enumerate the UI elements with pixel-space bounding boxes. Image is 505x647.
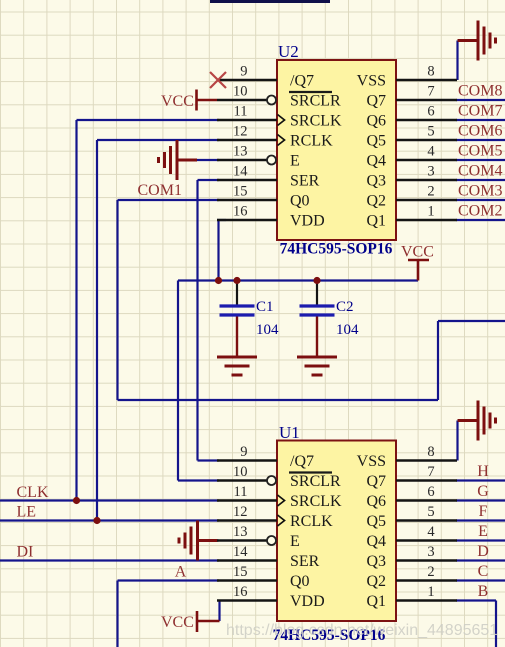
power VCC at U1 pin16	[197, 611, 220, 632]
svg-text:SER: SER	[290, 553, 320, 570]
wire U2 pin15 vertical	[116, 200, 118, 400]
wire vertical x438	[437, 321, 439, 400]
pin 10 U1	[217, 479, 267, 481]
svg-text:SRCLK: SRCLK	[290, 113, 342, 130]
svg-text:14: 14	[233, 164, 248, 180]
svg-text:COM1: COM1	[138, 182, 182, 199]
junction LE	[93, 517, 100, 524]
wire net COM5	[456, 159, 505, 161]
svg-text:SRCLR: SRCLR	[290, 93, 341, 110]
pin 1 U2	[396, 219, 457, 221]
svg-text:13: 13	[233, 144, 248, 160]
pin 6 U2	[396, 119, 457, 121]
pin 9 U2	[217, 79, 277, 81]
overline SRCLR U2	[289, 91, 332, 93]
junction rail x218	[215, 277, 222, 284]
svg-text:B: B	[478, 583, 489, 600]
svg-text:SER: SER	[290, 173, 320, 190]
wire U2 pin13 stub	[196, 159, 219, 161]
svg-text:8: 8	[427, 64, 434, 80]
svg-text:RCLK: RCLK	[290, 133, 333, 150]
wire net F	[456, 519, 505, 521]
wire U2 pin8 vertical to ground	[456, 41, 458, 81]
svg-text:15: 15	[233, 184, 248, 200]
ground earth C2	[297, 357, 337, 375]
svg-text:8: 8	[427, 444, 434, 460]
pin 13 U1	[217, 539, 267, 541]
junction CLK	[73, 497, 80, 504]
svg-text:10: 10	[233, 464, 248, 480]
pin 4 U2	[396, 159, 457, 161]
capacitor C2 bottom stub	[316, 317, 318, 357]
power ground at U2 pin13	[159, 140, 198, 180]
svg-text:VCC: VCC	[401, 244, 434, 261]
svg-text:https://blog.csdn.net/weixin_4: https://blog.csdn.net/weixin_44895651	[226, 622, 498, 639]
svg-text:3: 3	[427, 164, 434, 180]
svg-text:9: 9	[240, 64, 247, 80]
capacitor C1 top stub	[236, 281, 238, 305]
pin names U1 right	[357, 453, 386, 610]
ground earth C1	[217, 357, 257, 375]
wire net E	[456, 539, 505, 541]
clock symbol U2 pin12	[278, 135, 285, 146]
svg-text:U2: U2	[278, 42, 299, 61]
svg-text:9: 9	[240, 444, 247, 460]
wire net COM7	[456, 119, 505, 121]
wire VCC rail	[178, 279, 418, 281]
pin 15 U1	[217, 579, 277, 581]
svg-text:COM2: COM2	[458, 203, 502, 220]
pin 12 U2	[217, 139, 277, 141]
svg-text:C1: C1	[256, 299, 274, 315]
wire net COM6	[456, 139, 505, 141]
svg-text:SRCLR: SRCLR	[290, 473, 341, 490]
power ground at U1 pin13	[179, 521, 218, 561]
pin numbers U1 right	[427, 444, 435, 600]
svg-text:D: D	[477, 543, 489, 560]
svg-text:F: F	[479, 503, 488, 520]
inversion bubble U2 pin13	[267, 156, 276, 165]
svg-text:VCC: VCC	[161, 614, 194, 631]
pin 11 U1	[217, 499, 277, 501]
wire net COM2	[456, 219, 505, 221]
wire horizontal y400	[118, 399, 439, 401]
wire net B horizontal	[456, 599, 496, 601]
wire net CLK	[0, 499, 219, 501]
svg-text:VSS: VSS	[357, 453, 386, 470]
svg-text:RCLK: RCLK	[290, 513, 333, 530]
svg-text:DI: DI	[17, 544, 34, 561]
pin numbers U1 left	[233, 444, 248, 600]
svg-text:Q2: Q2	[366, 573, 386, 590]
svg-text:U1: U1	[279, 423, 300, 442]
power VCC mid rail	[408, 260, 429, 281]
svg-text:6: 6	[427, 484, 434, 500]
svg-text:16: 16	[233, 584, 248, 600]
svg-text:7: 7	[427, 464, 434, 480]
IC U2 body	[277, 60, 396, 240]
svg-text:COM3: COM3	[458, 183, 502, 200]
capacitor C1 plates	[220, 306, 255, 315]
pin 14 U1	[217, 559, 277, 561]
pin 8 U2	[396, 79, 457, 81]
svg-text:4: 4	[427, 144, 435, 160]
capacitor C2 top stub	[316, 281, 318, 305]
pin 16 U2	[217, 219, 277, 221]
svg-text:Q4: Q4	[366, 533, 386, 550]
svg-text:Q6: Q6	[366, 113, 386, 130]
pin 5 U2	[396, 139, 457, 141]
wire net COM3	[456, 199, 505, 201]
pin 13 U2	[217, 159, 267, 161]
svg-text:Q6: Q6	[366, 493, 386, 510]
wire horizontal y321 to right edge	[438, 320, 505, 322]
capacitor C1 bottom stub	[236, 317, 238, 357]
svg-text:1: 1	[427, 584, 434, 600]
wire U2 pin16 stub	[217, 219, 226, 221]
wire U1 pin15 vertical to bottom edge	[116, 581, 118, 647]
wire top edge	[210, 0, 330, 3]
clock symbol U2 pin11	[278, 115, 285, 126]
inversion bubble U1 pin10	[267, 476, 276, 485]
svg-text:VDD: VDD	[290, 213, 325, 230]
svg-text:5: 5	[427, 124, 434, 140]
svg-text:11: 11	[234, 484, 248, 500]
wire U2 pin15 horizontal net COM1	[118, 199, 220, 201]
svg-text:16: 16	[233, 204, 248, 220]
wire U1 pin10 horizontal	[178, 479, 219, 481]
svg-text:SRCLK: SRCLK	[290, 493, 342, 510]
svg-text:COM6: COM6	[458, 123, 502, 140]
svg-text:104: 104	[256, 322, 279, 338]
pin 2 U2	[396, 199, 457, 201]
svg-text:Q0: Q0	[290, 573, 310, 590]
svg-text:E: E	[290, 153, 300, 170]
pin 4 U1	[396, 539, 457, 541]
pin 10 U2	[217, 99, 267, 101]
svg-text:COM4: COM4	[458, 163, 502, 180]
wire U2 pin16 vertical to rail	[217, 220, 219, 281]
pin names U2 left	[290, 73, 342, 230]
pin 15 U2	[217, 199, 277, 201]
svg-text:14: 14	[233, 544, 248, 560]
wire U2 pin14 horizontal	[198, 179, 220, 181]
svg-text:VCC: VCC	[161, 93, 194, 110]
wire net D	[456, 559, 505, 561]
svg-text:Q4: Q4	[366, 153, 386, 170]
svg-text:G: G	[477, 483, 489, 500]
svg-text:Q2: Q2	[366, 193, 386, 210]
pin 9 U1	[217, 459, 277, 461]
wire U1 pin9 horizontal	[198, 459, 220, 461]
svg-text:E: E	[290, 533, 300, 550]
pin 1 U1	[396, 599, 457, 601]
clock symbol U1 pin12	[278, 515, 285, 526]
svg-text:1: 1	[427, 204, 434, 220]
svg-text:11: 11	[234, 104, 248, 120]
svg-text:COM8: COM8	[458, 83, 502, 100]
svg-text:COM5: COM5	[458, 143, 502, 160]
wire U1 pin13 stub	[196, 539, 219, 541]
junction rail C2	[313, 277, 320, 284]
inversion bubble U2 pin10	[267, 96, 276, 105]
svg-text:VDD: VDD	[290, 593, 325, 610]
svg-text:H: H	[477, 463, 489, 480]
no connect X at U2 pin9	[210, 72, 226, 88]
wire U2 pin11 vertical to CLK	[75, 120, 77, 501]
svg-text:2: 2	[427, 184, 434, 200]
svg-text:Q1: Q1	[366, 593, 386, 610]
pin numbers U2 right	[427, 64, 435, 220]
clock symbol U1 pin11	[278, 495, 285, 506]
svg-text:2: 2	[427, 564, 434, 580]
svg-text:C: C	[478, 563, 489, 580]
wire net COM8	[456, 99, 505, 101]
pin 2 U1	[396, 579, 457, 581]
svg-text:Q5: Q5	[366, 133, 386, 150]
pin 11 U2	[217, 119, 277, 121]
pin 5 U1	[396, 519, 457, 521]
svg-text:Q3: Q3	[366, 173, 386, 190]
svg-text:13: 13	[233, 524, 248, 540]
wire net H	[456, 479, 505, 481]
wire U1 pin16 vertical	[218, 601, 220, 622]
wire U2 pin11 horizontal	[77, 119, 220, 121]
wire U2 pin12 horizontal	[97, 139, 219, 141]
svg-text:6: 6	[427, 104, 434, 120]
svg-text:/Q7: /Q7	[290, 73, 314, 90]
wire U1 pin15 horizontal net A	[118, 579, 220, 581]
pin 6 U1	[396, 499, 457, 501]
svg-text:12: 12	[233, 124, 248, 140]
wire net LE	[0, 519, 219, 521]
svg-text:Q1: Q1	[366, 213, 386, 230]
wire net C	[456, 579, 505, 581]
svg-text:LE: LE	[17, 504, 37, 521]
wire net B vertical to bottom edge	[495, 601, 497, 647]
pin names U1 left	[290, 453, 342, 610]
junction rail C1	[233, 277, 240, 284]
svg-text:15: 15	[233, 564, 248, 580]
IC U1 body	[277, 441, 396, 622]
wire rail vertical to U1 pin10	[177, 281, 179, 481]
pin 8 U1	[396, 459, 457, 461]
svg-text:3: 3	[427, 544, 434, 560]
svg-text:10: 10	[233, 84, 248, 100]
svg-text:Q3: Q3	[366, 553, 386, 570]
svg-text:Q5: Q5	[366, 513, 386, 530]
wire cascade U1-Q7 to U2-SER vertical	[196, 180, 198, 461]
svg-text:5: 5	[427, 504, 434, 520]
svg-text:74HC595-SOP16: 74HC595-SOP16	[280, 241, 393, 258]
svg-text:Q7: Q7	[366, 93, 386, 110]
wire net G	[456, 499, 505, 501]
capacitor C2 plates	[300, 306, 335, 315]
pin numbers U2 left	[233, 64, 248, 220]
svg-text:Q7: Q7	[366, 473, 386, 490]
power VCC at U2 pin10	[197, 90, 218, 111]
pin names U2 right	[357, 73, 386, 230]
pin 7 U2	[396, 99, 457, 101]
svg-text:12: 12	[233, 504, 248, 520]
svg-text:E: E	[478, 523, 488, 540]
wire net DI	[0, 559, 219, 561]
pin 14 U2	[217, 179, 277, 181]
power ground at U1 pin8	[458, 401, 496, 441]
wire U2 pin12 vertical to LE	[96, 140, 98, 521]
overline SRCLR U1	[289, 471, 332, 473]
pin 16 U1	[217, 599, 277, 601]
inversion bubble U1 pin13	[267, 536, 276, 545]
pin 3 U2	[396, 179, 457, 181]
svg-text:COM7: COM7	[458, 103, 502, 120]
svg-text:VSS: VSS	[357, 73, 386, 90]
pin 7 U1	[396, 479, 457, 481]
wire net COM4	[456, 179, 505, 181]
svg-text:CLK: CLK	[17, 484, 49, 501]
svg-text:7: 7	[427, 84, 434, 100]
svg-text:4: 4	[427, 524, 435, 540]
power ground at U2 pin8	[458, 21, 496, 61]
svg-text:A: A	[175, 564, 187, 581]
svg-text:C2: C2	[336, 299, 354, 315]
pin 3 U1	[396, 559, 457, 561]
svg-text:/Q7: /Q7	[290, 453, 314, 470]
svg-text:104: 104	[336, 322, 359, 338]
wire U1 pin8 vertical to ground	[456, 421, 458, 461]
svg-text:Q0: Q0	[290, 193, 310, 210]
pin 12 U1	[217, 519, 277, 521]
